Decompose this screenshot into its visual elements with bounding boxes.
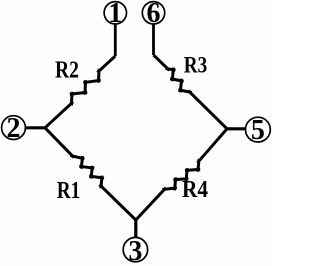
svg-text:R2: R2	[55, 58, 79, 84]
node 5	[246, 115, 271, 146]
wire node6 down to bend	[152, 24, 155, 55]
wire right junction stub to node5	[227, 127, 246, 130]
svg-text:5: 5	[251, 115, 265, 146]
resistor R1 (between node 2 junction and node 3 junction)	[45, 128, 136, 220]
svg-text:3: 3	[128, 236, 142, 266]
wire bottom junction down to node3	[134, 220, 137, 238]
node 1	[104, 0, 126, 29]
resistor R4 (between node 5 junction and node 3 junction)	[136, 129, 227, 220]
resistor R2 (between node 1 bend and node 2 junction)	[45, 56, 115, 128]
wire node1 down to bend	[114, 24, 117, 56]
node 6	[142, 0, 164, 29]
svg-text:R4: R4	[182, 177, 208, 203]
node 3	[123, 236, 147, 266]
svg-text:R3: R3	[184, 53, 208, 78]
svg-text:R1: R1	[57, 178, 81, 204]
node 2	[2, 113, 26, 144]
wire node2 stub to left junction	[25, 126, 45, 129]
svg-text:2: 2	[7, 113, 21, 144]
resistor R3 (between node 6 bend and node 5 junction)	[154, 55, 228, 129]
